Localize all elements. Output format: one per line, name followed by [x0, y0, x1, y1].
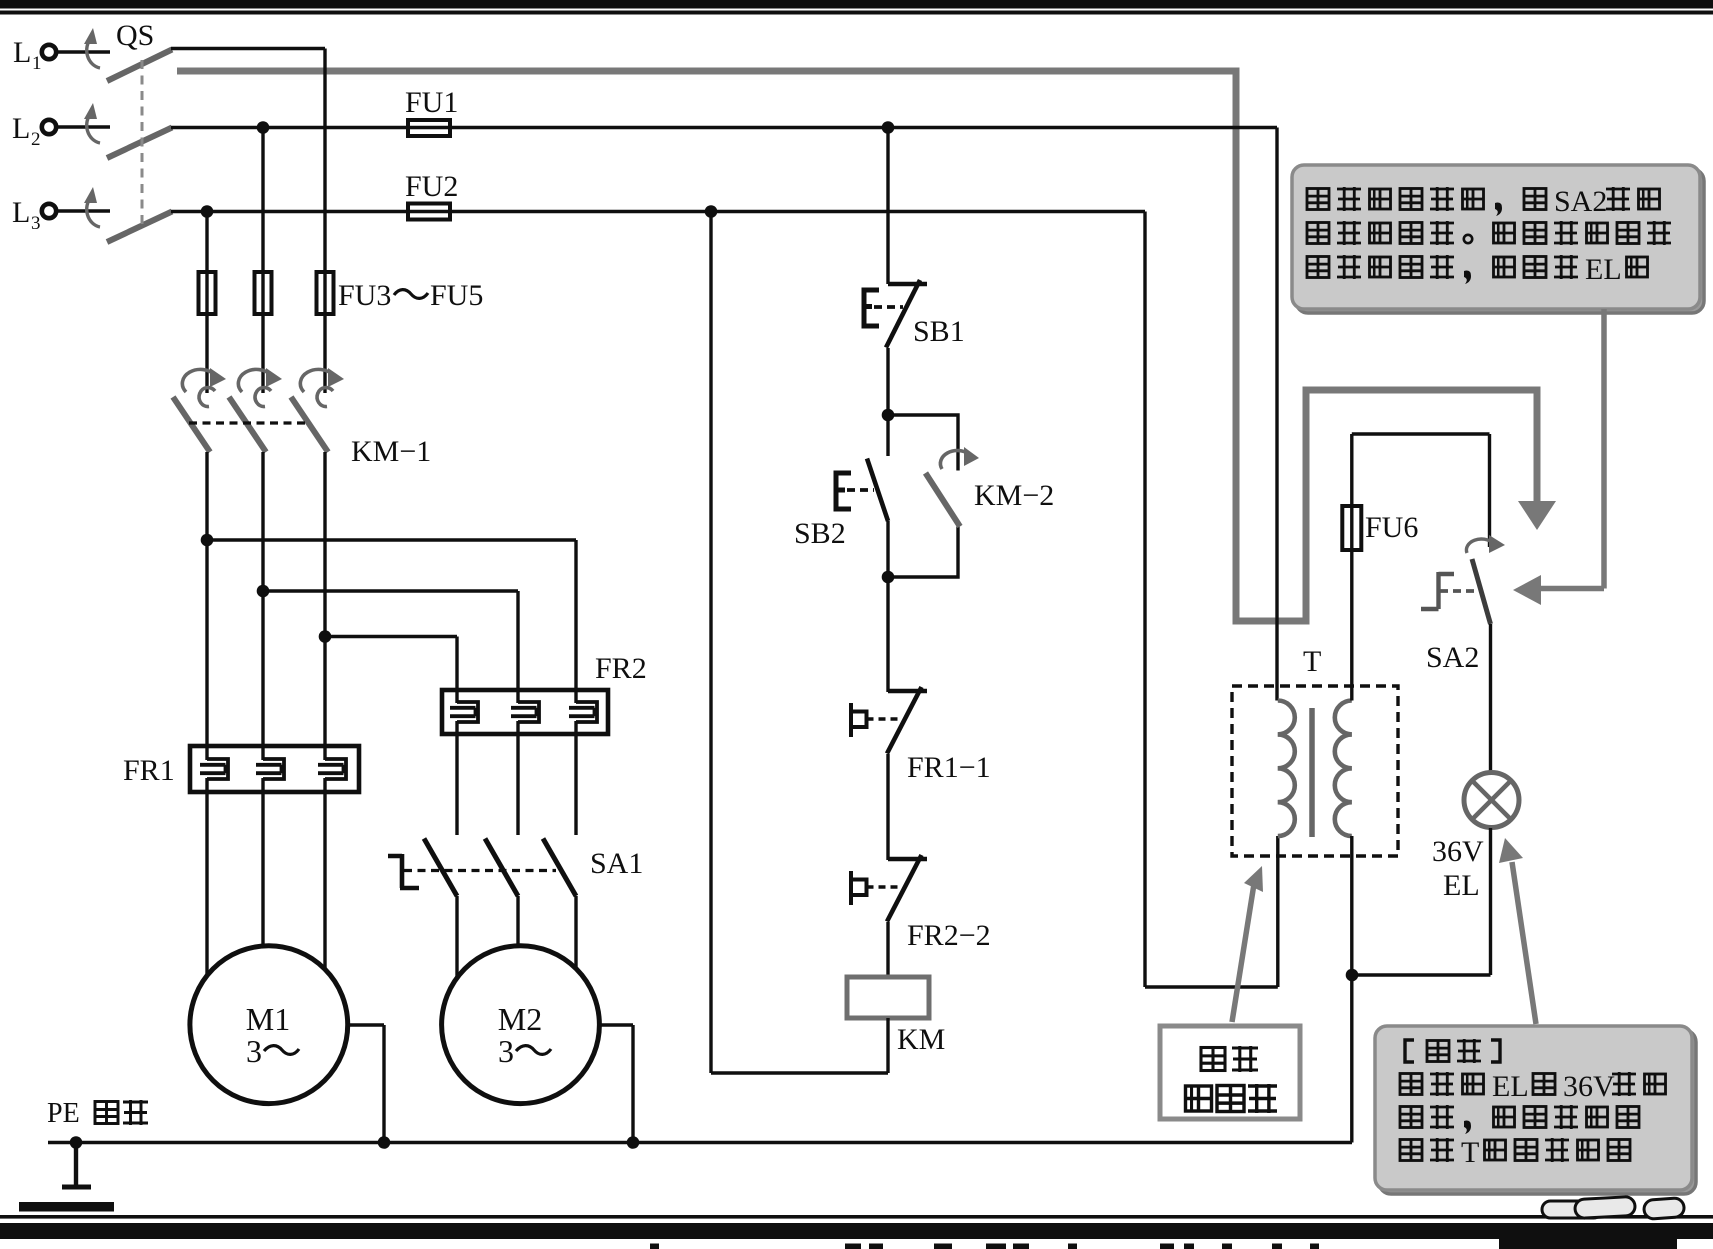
border bottom thick bar	[0, 1223, 1713, 1239]
border top thick bar	[0, 0, 1713, 9]
svg-text:3: 3	[246, 1033, 262, 1069]
QS pole-3 blade	[107, 212, 172, 243]
svg-text:L: L	[12, 196, 30, 229]
svg-text:SB2: SB2	[794, 517, 846, 550]
lamp EL	[1464, 773, 1519, 828]
svg-text:FR1−1: FR1−1	[907, 751, 991, 784]
label L3	[12, 196, 41, 234]
wire L2 to transformer primary	[1275, 128, 1278, 701]
label SA1	[590, 847, 643, 880]
contact FR2-2 link dashed	[867, 885, 899, 889]
pushbutton SB2 link dashed	[847, 488, 874, 492]
wire leg3 to FR2 left	[325, 637, 457, 691]
QS pole-2 blade	[107, 128, 172, 159]
contact FR1-1 fixed bar	[888, 689, 927, 693]
label QS	[116, 19, 154, 52]
transformer T core	[1309, 708, 1315, 837]
label L2	[12, 112, 41, 150]
KM-1 pole-3 blade	[291, 397, 328, 452]
svg-text:SB1: SB1	[913, 315, 965, 348]
wire L3 bus	[171, 210, 1145, 213]
wire to SA2 fixed	[1488, 434, 1491, 547]
wire L3 input	[57, 209, 111, 212]
annotation box (bottom right)	[1375, 1026, 1692, 1190]
node M2-PE junction	[627, 1136, 640, 1149]
label SB2	[794, 517, 846, 550]
transformer T dashed enclosure	[1232, 686, 1398, 856]
pushbutton SB1 link dashed	[874, 305, 903, 309]
wire secondary bottom to PE	[1350, 836, 1353, 1143]
label FR2	[595, 652, 647, 685]
svg-text:KM−1: KM−1	[351, 435, 431, 468]
SA1 mechanical link dashed	[404, 869, 556, 872]
gray arrowhead pointing down at SA2	[1518, 501, 1556, 530]
svg-text:2: 2	[31, 129, 41, 150]
annotation box shadow (top)	[1296, 169, 1704, 313]
label EL	[1443, 869, 1480, 902]
label T	[1303, 645, 1321, 678]
svg-text:36V: 36V	[1563, 1070, 1615, 1103]
annotation text line 3 (qi er ci tong lu, zhao ming deng EL liang)	[1307, 253, 1648, 286]
wire KM-1 pole-1 lower	[205, 452, 208, 746]
motor M1	[190, 946, 348, 1104]
node B (SB2 bottom)	[882, 571, 895, 584]
QS pole-3 rotation arrow	[84, 187, 100, 227]
note text line 2 (zhao ming deng EL de 36V gong dian)	[1400, 1070, 1666, 1103]
QS pole-1 blade	[107, 50, 172, 82]
wire SB1 to node A	[886, 348, 889, 415]
svg-text:T: T	[1303, 645, 1321, 678]
annotation text line 2 (jie tong de zhuang tai. ci shi zhao ming bian ya)	[1307, 221, 1671, 245]
fuse FU4	[255, 272, 272, 314]
wire FR1 left to M1	[205, 792, 208, 976]
label FU1	[405, 86, 458, 119]
label PE (PE jie di)	[47, 1098, 148, 1129]
QS pole-1 rotation arrow	[84, 28, 100, 68]
label M1 3-phase	[246, 1033, 299, 1069]
contact KM-2 blade	[926, 473, 961, 527]
node leg3-to-FR2 junction	[319, 630, 332, 643]
FR2 heater element right	[569, 702, 597, 722]
contact FR1-1 blade	[887, 687, 922, 754]
wire L3 down leg	[205, 212, 208, 394]
label M2 3-phase	[498, 1033, 551, 1069]
wire return to L3 bus	[1143, 212, 1146, 988]
svg-text:SA2: SA2	[1554, 185, 1607, 218]
thermal relay FR1 box	[190, 746, 359, 792]
label FU6	[1365, 511, 1418, 544]
wire control return to L3	[709, 212, 712, 1074]
KM-1 pole-2 rotation arrow	[238, 368, 282, 407]
pushbutton SB1 blade	[886, 280, 920, 348]
contact FR1-1 actuator	[851, 703, 867, 737]
label FR1	[123, 754, 175, 787]
callout text zhao ming	[1201, 1046, 1258, 1072]
wire FR1 right to M1	[323, 792, 326, 970]
SA2 operator crank	[1421, 572, 1454, 609]
KM-1 pole-1 rotation arrow	[182, 368, 226, 407]
wire FR2 middle lower	[516, 734, 519, 835]
svg-text:FU6: FU6	[1365, 511, 1418, 544]
wire lamp return	[1352, 828, 1491, 975]
contact FR2-2 actuator	[851, 871, 867, 905]
label SB1	[913, 315, 965, 348]
fuse FU6	[1342, 506, 1361, 550]
wire KM-1 pole-2 lower	[261, 452, 264, 746]
annotation box shadow (bottom)	[1379, 1030, 1696, 1194]
SA1 pole-3 blade	[543, 839, 576, 897]
callout text bian ya qi	[1186, 1084, 1278, 1113]
fuse FU3	[199, 272, 216, 314]
wire SA1 pole-3 to M2	[574, 896, 577, 969]
wire leg2 to FR2 middle	[263, 591, 518, 690]
node secondary-ground junction	[1346, 969, 1359, 982]
note text line 4 (ya qi T er ci shu chu de)	[1400, 1136, 1630, 1169]
coil KM	[847, 977, 929, 1018]
ground PE earth bar	[19, 1202, 114, 1212]
wire M1 to PE	[348, 1025, 384, 1143]
label KM-1	[351, 435, 431, 468]
motor M2	[442, 946, 600, 1104]
wire FR1-1 to FR2-2	[886, 754, 889, 860]
pushbutton SB2 blade	[867, 459, 888, 522]
thermal relay FR2 box	[442, 690, 608, 734]
label M2	[498, 1001, 542, 1037]
wire node B to FR1-1	[886, 577, 889, 692]
annotation box (top right)	[1292, 165, 1700, 309]
wire control from L2 to SB1	[886, 128, 889, 285]
svg-text:FU3: FU3	[338, 279, 391, 312]
wire KM-1 pole-3 lower	[323, 452, 326, 746]
label FR2-2	[907, 919, 991, 952]
wire L2 bus	[171, 126, 1277, 129]
node PE junction	[70, 1136, 83, 1149]
terminal L2	[42, 120, 56, 134]
wire SA1 pole-1 to M2	[455, 896, 458, 978]
node L2-control junction	[882, 121, 895, 134]
svg-text:EL: EL	[1585, 253, 1622, 286]
label FU2	[405, 170, 458, 203]
svg-text:1: 1	[32, 53, 42, 74]
wire secondary top via FU6	[1350, 434, 1353, 701]
svg-text:36V: 36V	[1432, 835, 1484, 868]
svg-text:EL: EL	[1492, 1070, 1529, 1103]
wire secondary top horizontal	[1352, 432, 1490, 435]
svg-text:FU2: FU2	[405, 170, 458, 203]
wire L2 down leg	[261, 128, 264, 394]
KM-1 pole-3 rotation arrow	[300, 368, 344, 407]
label M1	[246, 1001, 290, 1037]
SA2 rotation arrow	[1466, 535, 1505, 553]
svg-text:QS: QS	[116, 19, 154, 52]
SA1 pole-2 blade	[485, 839, 518, 897]
pushbutton SB1 button cap	[864, 290, 879, 326]
node M1-PE junction	[378, 1136, 391, 1149]
note text line 1 (shuo ming header)	[1405, 1039, 1500, 1063]
svg-text:SA2: SA2	[1426, 641, 1479, 674]
svg-text:M2: M2	[498, 1001, 542, 1037]
node leg1-to-FR2 junction	[201, 534, 214, 547]
KM-2 rotation arrow	[940, 447, 979, 469]
contact FR2-2 fixed bar	[888, 857, 927, 861]
wire L1 input	[57, 50, 111, 53]
label 36V	[1432, 835, 1484, 868]
wire FR2-2 to KM coil	[886, 922, 889, 977]
KM-1 pole-1 blade	[173, 397, 210, 452]
KM-1 pole-2 blade	[229, 397, 266, 452]
svg-text:3: 3	[498, 1033, 514, 1069]
note text line 3 (dian ya, shi you zhao ming bian)	[1400, 1105, 1639, 1134]
fuse FU1	[408, 120, 450, 136]
wire L2 input	[57, 125, 111, 128]
svg-text:EL: EL	[1443, 869, 1480, 902]
switch SA2 blade	[1472, 559, 1491, 624]
svg-text:FR2−2: FR2−2	[907, 919, 991, 952]
FR2 heater element left	[450, 702, 478, 722]
node L2-leg junction	[257, 121, 270, 134]
border top thin line	[0, 11, 1713, 15]
transformer T secondary winding	[1335, 701, 1352, 837]
fuse FU5	[317, 272, 334, 314]
wire L1 to corner	[171, 47, 325, 50]
label FR1-1	[907, 751, 991, 784]
FR2 heater element middle	[511, 702, 539, 722]
transformer T primary winding	[1278, 701, 1295, 837]
label FU3~FU5	[338, 279, 483, 312]
svg-text:FR1: FR1	[123, 754, 175, 787]
SA2 link dashed	[1440, 589, 1478, 593]
svg-text:FU5: FU5	[430, 279, 483, 312]
cut-off caption fragments at bottom	[650, 1244, 1319, 1249]
annotation text line 1 (xu yao zhao ming deng shi, jiang SA2 xuan zhi)	[1307, 185, 1660, 218]
label KM	[897, 1023, 945, 1056]
contact FR1-1 link dashed	[867, 717, 899, 721]
FR1 heater element right	[318, 759, 346, 779]
svg-text:M1: M1	[246, 1001, 290, 1037]
svg-text:L: L	[12, 112, 30, 145]
wire FR1 middle to M1	[261, 792, 264, 947]
svg-text:FU1: FU1	[405, 86, 458, 119]
fuse FU2	[408, 204, 450, 220]
svg-text:L: L	[13, 36, 31, 69]
FR1 heater element middle	[256, 759, 284, 779]
node L3-leg junction	[201, 205, 214, 218]
wire stubs inside FR2	[457, 690, 576, 734]
label KM-2	[974, 479, 1054, 512]
label L1	[13, 36, 42, 74]
gray arrow to transformer	[1232, 866, 1263, 1022]
gray arrowhead pointing left at SA2	[1513, 575, 1541, 605]
svg-text:3: 3	[31, 213, 41, 234]
wire SB2 upper	[886, 415, 889, 456]
wire KM-2 branch	[888, 415, 958, 577]
wire transformer primary bottom return	[1145, 836, 1278, 987]
FR1 heater element left	[200, 759, 228, 779]
wire FR2 left lower	[455, 734, 458, 835]
pushbutton SB2 button cap	[836, 473, 851, 509]
SA1 pole-1 blade	[424, 839, 457, 897]
svg-text:KM: KM	[897, 1023, 945, 1056]
svg-text:T: T	[1461, 1136, 1479, 1169]
node A (SB1 bottom)	[882, 409, 895, 422]
wire PE bus	[48, 1141, 1352, 1144]
wire L1 down leg	[323, 49, 326, 394]
QS pole-2 rotation arrow	[84, 103, 100, 143]
QS mechanical link dashed	[141, 60, 144, 228]
border bottom thin line	[0, 1215, 1713, 1219]
svg-text:FR2: FR2	[595, 652, 647, 685]
gray highlight wire from QS to SA2 area	[177, 71, 1537, 621]
wire leg1 to FR2 right	[207, 540, 576, 690]
callout box transformer label	[1160, 1026, 1300, 1119]
decorative capsules bottom right	[1542, 1196, 1685, 1219]
terminal L1	[42, 45, 56, 59]
KM-1 mechanical link dashed	[189, 421, 306, 424]
wire stubs inside FR1	[207, 746, 325, 792]
gray connector from box to SA2	[1540, 309, 1604, 589]
svg-text:KM−2: KM−2	[974, 479, 1054, 512]
node L3-control junction	[705, 205, 718, 218]
pushbutton SB1 fixed contact bar	[888, 282, 927, 286]
node leg2-to-FR2 junction	[257, 585, 270, 598]
wire KM coil to return	[711, 1018, 888, 1073]
label SA2	[1426, 641, 1479, 674]
wire M2 to PE	[599, 1025, 633, 1143]
SA1 operator crank	[388, 854, 419, 888]
terminal L3	[42, 204, 56, 218]
wire SA1 pole-2 to M2	[516, 896, 519, 946]
gray arrow to lamp EL	[1499, 838, 1536, 1024]
wire SA2 to lamp	[1489, 624, 1492, 772]
wire SB2 lower	[886, 521, 889, 577]
wire FR2 right lower	[574, 734, 577, 835]
contact FR2-2 blade	[887, 855, 922, 922]
border bottom-right black box	[1499, 1232, 1677, 1249]
ground PE symbol	[62, 1143, 91, 1188]
svg-text:SA1: SA1	[590, 847, 643, 880]
svg-text:PE: PE	[47, 1098, 80, 1129]
